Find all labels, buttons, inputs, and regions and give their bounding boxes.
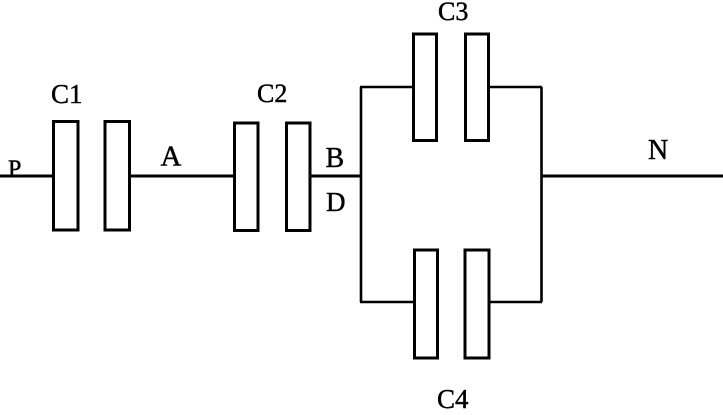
svg-text:P: P [8, 157, 21, 183]
wire bottom branch right [489, 301, 542, 304]
svg-text:C3: C3 [438, 0, 468, 26]
svg-text:A: A [161, 141, 182, 173]
wire N (junction to right edge) [542, 175, 723, 178]
svg-text:C4: C4 [437, 384, 469, 414]
svg-text:C1: C1 [51, 79, 83, 109]
svg-text:N: N [648, 135, 668, 166]
capacitor C1 [54, 122, 130, 231]
wire left branch vertical [360, 87, 363, 302]
wire B (C2 to parallel junction) [311, 175, 362, 178]
wire bottom branch left [360, 301, 414, 304]
wire P to C1 [0, 175, 53, 178]
svg-text:C2: C2 [257, 79, 287, 108]
wire right branch vertical [540, 87, 543, 302]
svg-text:B: B [326, 143, 345, 174]
capacitor C4 [415, 250, 490, 358]
capacitor C3 [414, 34, 489, 141]
svg-text:D: D [326, 187, 346, 217]
wire top branch left [360, 86, 413, 89]
capacitor C2 [235, 123, 311, 231]
wire top branch right [489, 86, 542, 89]
wire A (C1 to C2) [130, 175, 234, 178]
